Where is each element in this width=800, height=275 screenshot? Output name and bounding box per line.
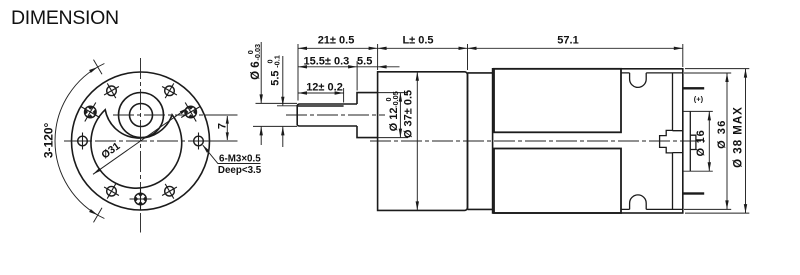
arrowhead leader bbox=[203, 145, 210, 153]
rear bearing boss bbox=[660, 130, 673, 153]
M3 hole at 300 deg bbox=[162, 184, 177, 199]
svg-text:-0.05: -0.05 bbox=[391, 91, 400, 108]
arrow L right bbox=[459, 47, 468, 50]
svg-text:-0.03: -0.03 bbox=[253, 44, 262, 61]
radial tick at 240deg bbox=[94, 208, 103, 223]
dia16 ext lines bbox=[683, 111, 713, 171]
svg-text:5.5: 5.5 bbox=[357, 55, 372, 67]
dia6 dim line bbox=[260, 42, 262, 145]
crimp notch top bbox=[630, 73, 647, 88]
arrow dia12 bottom bbox=[399, 129, 402, 138]
M3 hole at 120 deg bbox=[104, 83, 119, 98]
svg-text:7: 7 bbox=[217, 123, 229, 129]
arrow L left bbox=[378, 47, 387, 50]
dia36 dim line bbox=[726, 73, 728, 209]
dim row 21 / L / 57.1 bbox=[298, 47, 683, 49]
bearing boss dia12 bbox=[357, 93, 378, 138]
hatched hole at 30 deg bbox=[181, 103, 200, 122]
label dia16 bbox=[695, 129, 707, 156]
crescent gear-case profile bbox=[91, 110, 182, 188]
label dia12 tol bbox=[384, 91, 400, 131]
arrow 5.5tol bottom bbox=[281, 126, 284, 135]
arrow 15.5 right bbox=[348, 65, 357, 68]
terminal bottom bbox=[683, 192, 704, 194]
dia37 dim line bbox=[416, 72, 418, 211]
svg-text:21± 0.5: 21± 0.5 bbox=[318, 35, 355, 47]
shaft axis centerline bbox=[286, 114, 385, 116]
ext line motor end bbox=[682, 44, 684, 67]
dia12 dim line bbox=[399, 93, 401, 138]
output shaft bbox=[297, 104, 357, 126]
arrow 57.1 right bbox=[674, 47, 683, 50]
3-120 label bbox=[42, 122, 56, 158]
dia38 dim line bbox=[745, 69, 747, 214]
arrow dia37 bottom bbox=[416, 201, 419, 210]
arrowhead 7 top bbox=[226, 116, 229, 124]
arrow 15.5 left bbox=[298, 65, 307, 68]
front housing ring (neck) bbox=[468, 73, 493, 210]
magnet upper bbox=[494, 69, 621, 133]
arrow dia38 top bbox=[744, 69, 747, 78]
ext line gearbox rear bbox=[467, 44, 469, 70]
svg-text:DIMENSION: DIMENSION bbox=[11, 7, 119, 29]
svg-text:Ø 6: Ø 6 bbox=[250, 61, 262, 80]
shaft boss circle bbox=[119, 93, 164, 138]
arrow dia37 top bbox=[416, 72, 419, 81]
5.5 tail bbox=[378, 66, 400, 68]
dia31 label bbox=[99, 140, 122, 161]
dia31 dimension line bbox=[93, 108, 188, 175]
flat ext bbox=[277, 105, 297, 107]
vertical centerline bbox=[140, 58, 142, 233]
arrow 5.5tol top bbox=[281, 97, 284, 106]
arrowhead arc bottom bbox=[89, 209, 98, 215]
dia16 dim line bbox=[708, 111, 710, 171]
radial tick at 120deg bbox=[94, 60, 103, 75]
svg-text:5.5: 5.5 bbox=[270, 71, 282, 86]
svg-text:Ø 16: Ø 16 bbox=[695, 129, 707, 156]
arrow 21 right bbox=[369, 47, 378, 50]
svg-text:6-M3×0.5: 6-M3×0.5 bbox=[219, 154, 261, 165]
dia36 ext lines bbox=[684, 73, 731, 209]
terminal top bbox=[683, 87, 704, 89]
arrow 57.1 left bbox=[468, 47, 477, 50]
label dia38max bbox=[733, 106, 745, 168]
6-M3 leader bbox=[203, 145, 261, 163]
svg-text:Ø 38 MAX: Ø 38 MAX bbox=[733, 106, 745, 168]
arrow 12 right bbox=[335, 91, 344, 94]
M3 hole at 240 deg bbox=[104, 184, 119, 199]
arrow 21 left bbox=[298, 47, 307, 50]
svg-text:12± 0.2: 12± 0.2 bbox=[306, 82, 343, 94]
horizontal body centerline bbox=[64, 140, 238, 142]
arrow dia6 top bbox=[260, 94, 263, 103]
shaft flat edge bbox=[297, 105, 343, 107]
horizontal shaft centerline bbox=[113, 114, 238, 116]
motor can bbox=[493, 69, 683, 213]
M3 hole at 180 deg bbox=[74, 133, 91, 150]
svg-text:Ø 37± 0.5: Ø 37± 0.5 bbox=[403, 90, 415, 138]
svg-text:Ø 12: Ø 12 bbox=[388, 108, 400, 132]
dim row 12 bbox=[298, 92, 344, 94]
label 5.5 tol bbox=[266, 55, 282, 86]
M3 hole at 60 deg bbox=[162, 83, 177, 98]
label dia36 bbox=[716, 119, 728, 149]
gearbox body bbox=[378, 72, 468, 211]
shaft hole circle bbox=[130, 104, 153, 127]
arrow 12 left bbox=[298, 91, 307, 94]
arrow dia12 top bbox=[399, 93, 402, 102]
arrow 5.5 bbox=[378, 65, 387, 68]
dia38 ext lines bbox=[685, 69, 749, 214]
brush card line bbox=[672, 73, 674, 210]
magnet lower bbox=[494, 149, 621, 214]
svg-text:57.1: 57.1 bbox=[557, 35, 578, 47]
3-120 dim arc bbox=[55, 60, 104, 223]
gearbox outer circle bbox=[72, 72, 210, 210]
arrowhead 7 bottom bbox=[226, 132, 229, 140]
label dia37 bbox=[403, 90, 415, 138]
label dia6 tol bbox=[246, 44, 262, 80]
boss to end plate lines bbox=[673, 131, 683, 153]
crimp notch bottom bbox=[630, 195, 647, 210]
ext line shaft end bbox=[297, 44, 299, 101]
dia12 ext lines bbox=[378, 93, 408, 138]
label 7 bbox=[217, 123, 229, 129]
svg-text:Ø 36: Ø 36 bbox=[716, 119, 728, 149]
5.5 dim line bbox=[282, 56, 284, 147]
dia6 ext top bbox=[256, 102, 298, 104]
rear shaft tip bbox=[690, 135, 696, 149]
arrow dia16 top bbox=[708, 111, 711, 120]
gearbox rear face bbox=[467, 73, 469, 210]
arrow dia6 bottom bbox=[260, 126, 263, 135]
svg-text:15.5± 0.3: 15.5± 0.3 bbox=[304, 55, 350, 67]
arrow dia36 top bbox=[725, 73, 728, 82]
ext line boss face bbox=[356, 61, 358, 91]
svg-text:Deep<3.5: Deep<3.5 bbox=[218, 165, 262, 176]
svg-text:(+): (+) bbox=[694, 94, 704, 103]
arrowhead dia31 lower bbox=[93, 168, 101, 175]
hatched hole at 150 deg bbox=[81, 103, 100, 122]
ext line body face bbox=[377, 44, 379, 70]
motor axis centerline bbox=[370, 140, 705, 142]
7 offset dimension bbox=[205, 115, 238, 141]
svg-text:L± 0.5: L± 0.5 bbox=[402, 35, 433, 47]
M3 hole at 0 deg bbox=[190, 133, 207, 150]
arrow dia36 bottom bbox=[725, 200, 728, 209]
dim row 15.5 bbox=[298, 66, 378, 68]
svg-text:-0.1: -0.1 bbox=[273, 55, 282, 68]
cap lip line top bbox=[621, 72, 683, 74]
hatched hole at 270 deg bbox=[130, 188, 152, 210]
arrowhead dia31 upper bbox=[180, 108, 188, 115]
svg-text:3-120°: 3-120° bbox=[42, 122, 56, 158]
arrowhead arc top bbox=[89, 67, 98, 73]
dia6 ext bottom bbox=[253, 125, 297, 127]
arrow dia16 bottom bbox=[708, 162, 711, 171]
ext line flat end bbox=[343, 88, 345, 103]
cap lip line bottom bbox=[621, 208, 683, 210]
arrow dia38 bottom bbox=[744, 204, 747, 213]
rear bearing cylinder bbox=[689, 111, 691, 171]
